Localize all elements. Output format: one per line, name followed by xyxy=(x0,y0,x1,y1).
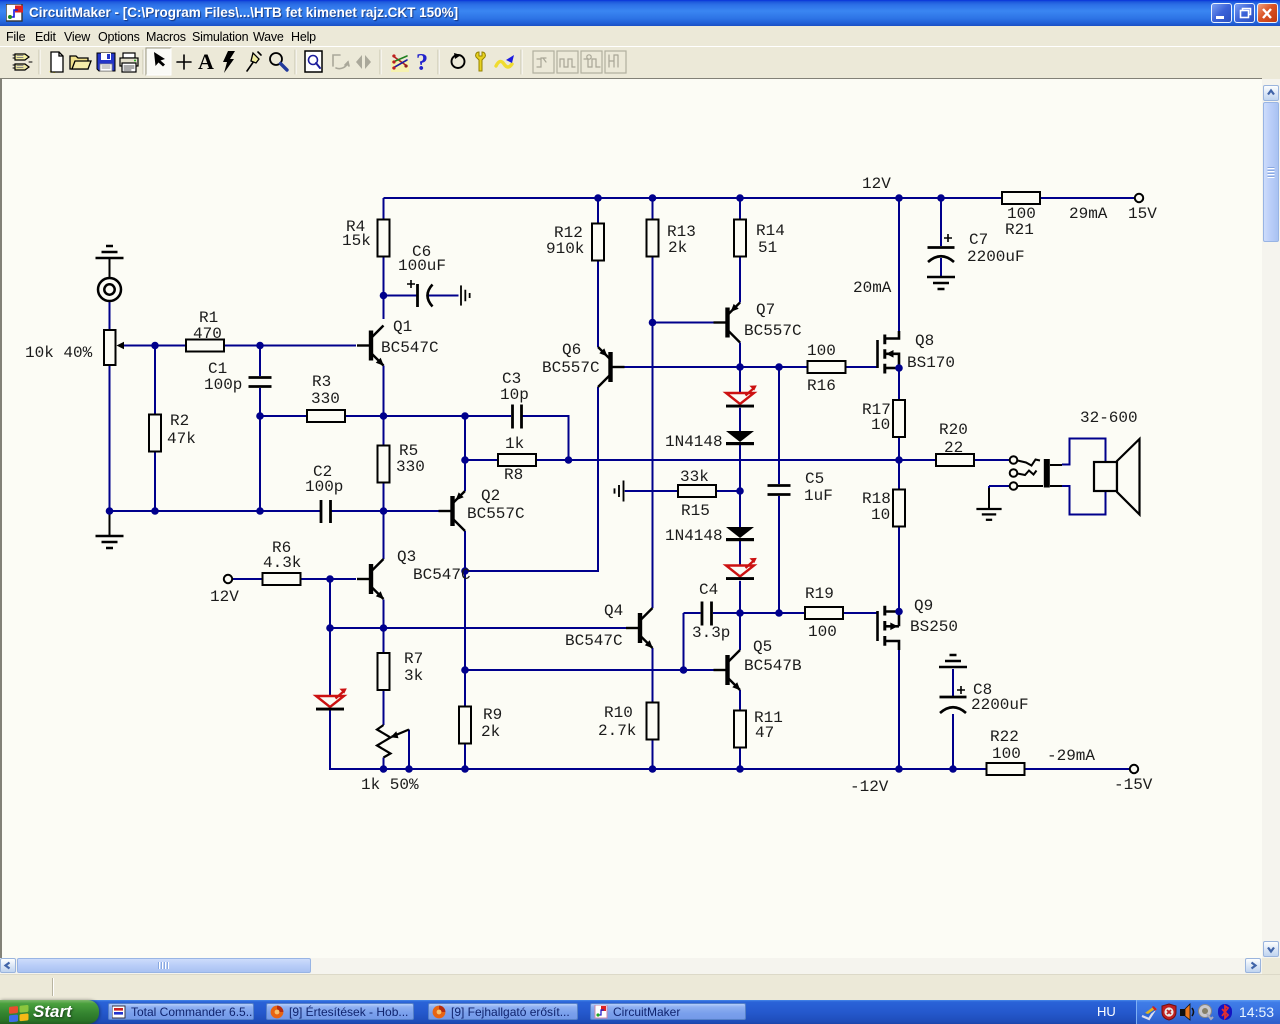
svg-text:29mA: 29mA xyxy=(1069,205,1108,223)
svg-text:12V: 12V xyxy=(862,175,891,193)
svg-text:1k 50%: 1k 50% xyxy=(361,776,419,794)
svg-text:R10: R10 xyxy=(604,704,633,722)
svg-text:2k: 2k xyxy=(668,239,687,257)
svg-text:R8: R8 xyxy=(504,466,523,484)
svg-text:Q6: Q6 xyxy=(562,341,581,359)
svg-text:100p: 100p xyxy=(204,376,242,394)
svg-text:10: 10 xyxy=(871,506,890,524)
svg-text:-15V: -15V xyxy=(1114,776,1153,794)
svg-text:10p: 10p xyxy=(500,386,529,404)
svg-text:3.3p: 3.3p xyxy=(692,624,730,642)
svg-text:BC557C: BC557C xyxy=(744,322,802,340)
svg-text:BC547C: BC547C xyxy=(565,632,623,650)
svg-text:100: 100 xyxy=(807,342,836,360)
svg-text:100uF: 100uF xyxy=(398,257,446,275)
svg-text:100: 100 xyxy=(808,623,837,641)
svg-text:10k 40%: 10k 40% xyxy=(25,344,93,362)
svg-text:4.3k: 4.3k xyxy=(263,554,301,572)
svg-text:Q5: Q5 xyxy=(753,638,772,656)
svg-text:3k: 3k xyxy=(404,667,423,685)
svg-text:Q8: Q8 xyxy=(915,332,934,350)
svg-text:32-600: 32-600 xyxy=(1080,409,1138,427)
svg-text:12V: 12V xyxy=(210,588,239,606)
svg-text:910k: 910k xyxy=(546,240,584,258)
svg-text:47: 47 xyxy=(755,724,774,742)
svg-text:Q9: Q9 xyxy=(914,597,933,615)
svg-text:20mA: 20mA xyxy=(853,279,892,297)
svg-text:Q4: Q4 xyxy=(604,602,623,620)
svg-text:R20: R20 xyxy=(939,421,968,439)
svg-text:1N4148: 1N4148 xyxy=(665,433,723,451)
svg-text:BC557C: BC557C xyxy=(467,505,525,523)
svg-text:330: 330 xyxy=(311,390,340,408)
svg-text:15V: 15V xyxy=(1128,205,1157,223)
svg-text:R16: R16 xyxy=(807,377,836,395)
svg-text:51: 51 xyxy=(758,239,777,257)
svg-text:R21: R21 xyxy=(1005,221,1034,239)
svg-text:Q3: Q3 xyxy=(397,548,416,566)
svg-text:2k: 2k xyxy=(481,723,500,741)
svg-text:330: 330 xyxy=(396,458,425,476)
svg-text:R15: R15 xyxy=(681,502,710,520)
svg-text:C7: C7 xyxy=(969,231,988,249)
svg-text:BC547C: BC547C xyxy=(413,566,471,584)
svg-text:BC557C: BC557C xyxy=(542,359,600,377)
svg-text:R14: R14 xyxy=(756,222,785,240)
svg-text:-29mA: -29mA xyxy=(1047,747,1095,765)
svg-text:BC547C: BC547C xyxy=(381,339,439,357)
svg-text:Q1: Q1 xyxy=(393,318,412,336)
svg-text:1k: 1k xyxy=(505,435,524,453)
svg-text:22: 22 xyxy=(944,439,963,457)
svg-text:100p: 100p xyxy=(305,478,343,496)
svg-text:R3: R3 xyxy=(312,373,331,391)
svg-text:R22: R22 xyxy=(990,728,1019,746)
svg-text:BS250: BS250 xyxy=(910,618,958,636)
svg-text:2200uF: 2200uF xyxy=(971,696,1029,714)
svg-text:470: 470 xyxy=(193,325,222,343)
svg-text:C5: C5 xyxy=(805,470,824,488)
svg-text:R19: R19 xyxy=(805,585,834,603)
svg-text:2.7k: 2.7k xyxy=(598,722,636,740)
svg-text:1uF: 1uF xyxy=(804,487,833,505)
svg-text:15k: 15k xyxy=(342,232,371,250)
svg-text:2200uF: 2200uF xyxy=(967,248,1025,266)
svg-text:BS170: BS170 xyxy=(907,354,955,372)
svg-text:BC547B: BC547B xyxy=(744,657,802,675)
svg-text:33k: 33k xyxy=(680,468,709,486)
svg-text:-12V: -12V xyxy=(850,778,889,796)
svg-text:R2: R2 xyxy=(170,412,189,430)
svg-text:Q2: Q2 xyxy=(481,487,500,505)
svg-text:47k: 47k xyxy=(167,430,196,448)
svg-text:R7: R7 xyxy=(404,650,423,668)
svg-text:C4: C4 xyxy=(699,581,718,599)
svg-text:1N4148: 1N4148 xyxy=(665,527,723,545)
svg-text:Q7: Q7 xyxy=(756,301,775,319)
svg-text:R9: R9 xyxy=(483,706,502,724)
svg-text:100: 100 xyxy=(992,745,1021,763)
svg-text:A: A xyxy=(198,49,214,74)
svg-text:?: ? xyxy=(416,50,428,76)
svg-text:10: 10 xyxy=(871,416,890,434)
